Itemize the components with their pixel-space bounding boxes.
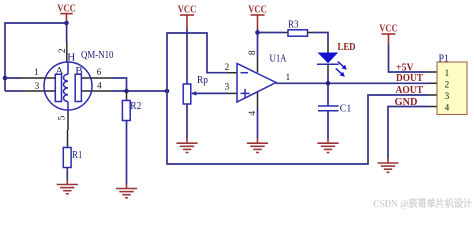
svg-text:1: 1 <box>445 69 450 79</box>
node junction left rail / pin1 <box>3 76 8 81</box>
sensor pin 3 <box>22 90 56 92</box>
svg-text:R3: R3 <box>288 18 299 30</box>
LED anode stub <box>327 43 329 53</box>
ground (GND net) <box>377 158 398 172</box>
svg-text:VCC: VCC <box>248 4 267 16</box>
wire AOUT loop (sensor node to connector) <box>167 91 429 164</box>
junction pin6/pin4/R2 <box>124 89 129 94</box>
svg-text:R1: R1 <box>72 149 82 161</box>
pin stub DOUT at P1 <box>429 82 437 84</box>
minus input mark <box>241 72 249 74</box>
svg-text:8: 8 <box>248 50 258 55</box>
svg-text:VCC: VCC <box>57 3 76 15</box>
wire R2 top <box>126 91 128 101</box>
capacitor C1 <box>318 106 339 111</box>
svg-text:P1: P1 <box>439 52 450 64</box>
op-amp U1A <box>237 64 276 103</box>
svg-text:4: 4 <box>445 104 450 114</box>
wire left rail to pin 1 <box>5 77 22 79</box>
op-amp pin 4 stub <box>257 93 259 109</box>
sensor pin 4 <box>81 90 112 92</box>
svg-text:Rp: Rp <box>197 74 208 86</box>
power port VCC (above Rp) <box>178 4 197 30</box>
electrode B <box>75 74 81 101</box>
wire VCC3 node to R3 <box>258 32 284 34</box>
R3 left stub <box>283 32 288 34</box>
svg-text:3: 3 <box>445 92 450 102</box>
svg-text:4: 4 <box>97 82 102 92</box>
potentiometer Rp body <box>183 84 191 104</box>
ground (R2) <box>116 184 137 198</box>
power port VCC (top-left) <box>57 3 76 24</box>
svg-text:DOUT: DOUT <box>396 73 423 84</box>
svg-text:2: 2 <box>225 63 230 73</box>
wire VCC3 lead to node <box>257 29 259 56</box>
R3 right stub <box>308 32 314 34</box>
svg-text:CSDN @辰哥单片机设计: CSDN @辰哥单片机设计 <box>373 197 472 210</box>
ground (Rp) <box>176 138 197 152</box>
svg-text:+5V: +5V <box>396 62 414 73</box>
svg-text:1: 1 <box>34 68 39 78</box>
sensor pin 2 (heater top) <box>66 42 68 62</box>
junction sensor node <box>165 89 170 94</box>
svg-text:R2: R2 <box>130 100 141 112</box>
wire R3 to LED <box>313 33 328 44</box>
op-amp pin 2 stub <box>228 72 237 74</box>
wire Rp bottom to ground <box>186 104 188 139</box>
ground (R1) <box>57 180 78 194</box>
wire op-amp output to connector (DOUT net) <box>276 82 429 84</box>
wire VCC2 to Rp top <box>186 29 188 84</box>
svg-text:C1: C1 <box>340 103 352 115</box>
pin stub GND at P1 <box>429 106 437 108</box>
wire C1 top <box>327 83 329 105</box>
sensor QM-N10 pin 1 lead <box>22 77 56 79</box>
Rp wiper arrow <box>191 91 228 95</box>
wire VCC4 to +5V pin <box>389 44 430 72</box>
svg-text:3: 3 <box>225 83 230 93</box>
svg-text:VCC: VCC <box>379 23 398 35</box>
connector P1 <box>437 52 467 114</box>
junction output/LED/C1 <box>326 81 331 86</box>
sensor pin 5 (heater bottom) <box>67 110 69 130</box>
power port VCC (connector +5V) <box>379 23 398 45</box>
svg-text:2: 2 <box>445 81 450 91</box>
op-amp pin 3 stub <box>228 92 237 94</box>
svg-text:U1A: U1A <box>270 53 287 65</box>
svg-text:3: 3 <box>35 82 40 92</box>
LED cathode stub <box>327 64 329 74</box>
heater coil <box>63 74 68 101</box>
LED diode <box>317 53 347 77</box>
wire pin4 to output node <box>112 90 167 92</box>
svg-text:LED: LED <box>338 42 356 53</box>
gas sensor QM-N10 body <box>44 62 92 110</box>
wire GND net from P1 to ground <box>388 107 429 159</box>
wire R1 top <box>67 130 69 148</box>
resistor R3 <box>288 30 308 36</box>
wire R2 bottom to ground <box>126 121 128 185</box>
op-amp pin 8 stub <box>257 56 259 73</box>
svg-text:VCC: VCC <box>178 4 197 16</box>
svg-text:6: 6 <box>97 68 102 78</box>
svg-text:QM-N10: QM-N10 <box>81 49 114 61</box>
electrode A <box>55 74 61 101</box>
LED light arrows <box>338 62 345 69</box>
sensor pin 6 <box>81 77 112 79</box>
svg-text:A: A <box>55 65 63 77</box>
wire C1 bottom to ground <box>327 112 329 139</box>
wire op-amp pin4 to ground <box>257 108 259 139</box>
svg-text:2: 2 <box>58 48 68 53</box>
wire left rail to pin 3 <box>5 90 22 92</box>
svg-text:H: H <box>67 51 75 63</box>
svg-text:B: B <box>75 65 82 77</box>
power port VCC (above op-amp) <box>248 4 267 30</box>
plus input mark <box>241 92 250 94</box>
svg-text:1: 1 <box>286 73 291 83</box>
wire pin6 corner to pin4 node <box>112 78 127 91</box>
svg-text:GND: GND <box>395 97 418 108</box>
pin stub +5V at P1 <box>429 71 437 73</box>
svg-text:AOUT: AOUT <box>396 85 424 96</box>
ground (C1) <box>317 138 338 152</box>
resistor R1 <box>63 148 71 168</box>
junction VCC3/R3/pin8 <box>255 30 260 35</box>
ground (op-amp) <box>247 138 268 152</box>
wire sensor node riser to op-amp inverting input <box>167 33 228 91</box>
svg-text:5: 5 <box>58 115 68 120</box>
wire from VCC1 to left rail <box>5 23 67 91</box>
resistor R2 <box>122 101 130 121</box>
wire R1 bottom to ground <box>66 168 68 181</box>
node junction at VCC1 <box>64 21 69 26</box>
pin stub AOUT at P1 <box>429 94 437 96</box>
